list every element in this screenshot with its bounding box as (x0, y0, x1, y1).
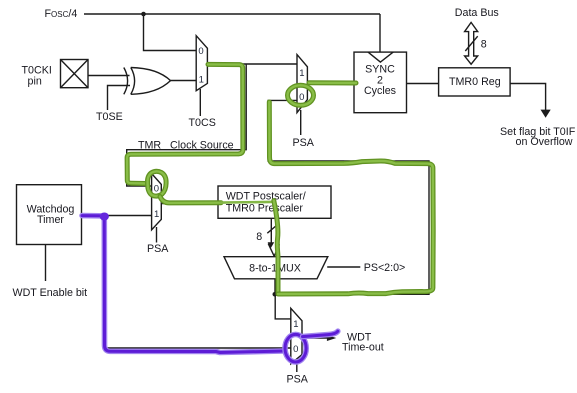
arrowhead WDT time-out (327, 335, 336, 341)
svg-text:1: 1 (199, 74, 204, 85)
box SYNC 2 Cycles (354, 52, 407, 113)
wire bottom PSA select (296, 362, 298, 372)
box TMR0 Reg (439, 68, 511, 96)
wire top PSA mux output to SYNC (307, 83, 354, 85)
highlight purple corner blob at watchdog junction (100, 213, 109, 221)
mux 8-to-1 (224, 257, 328, 279)
wire 8-to-1 mux output down (274, 279, 276, 295)
svg-text:T0SE: T0SE (96, 111, 123, 123)
arrowhead on wire (268, 242, 275, 248)
svg-text:1: 1 (154, 209, 159, 220)
highlight green clock source trace (127, 64, 243, 183)
svg-text:1: 1 (293, 319, 298, 330)
svg-text:FOSC/4: FOSC/4 (45, 8, 78, 20)
node prescaler output junction (273, 292, 278, 297)
wire TMR0 Reg overflow out (510, 84, 545, 111)
highlight purple WDT trace (82, 216, 284, 353)
mux PSA middle (152, 174, 162, 230)
arrowhead overflow (541, 110, 551, 118)
svg-text:PSA: PSA (287, 374, 309, 386)
svg-text:0: 0 (293, 344, 298, 355)
wire Watchdog branch down to WDT time-out mux input 0 (104, 216, 291, 349)
mux PSA bottom (291, 308, 302, 364)
box WDT Postscaler / TMR0 Prescaler (218, 186, 331, 218)
svg-text:PSA: PSA (147, 243, 169, 255)
wire PS select (327, 266, 360, 268)
wire Fosc/4 horizontal to SYNC clock (84, 13, 380, 15)
highlight purple time-out output (303, 331, 338, 336)
svg-text:on Overflow: on Overflow (516, 136, 573, 148)
xor gate (124, 68, 171, 95)
svg-text:0: 0 (299, 92, 304, 103)
svg-text:1: 1 (299, 68, 304, 79)
wire XOR output to T0CS mux input 1 (171, 80, 197, 82)
svg-text:TMR0 Prescaler: TMR0 Prescaler (226, 202, 304, 214)
highlight green top PSA output to SYNC (309, 80, 356, 85)
svg-text:Data Bus: Data Bus (455, 7, 499, 19)
wire WDT time-out output (302, 337, 328, 339)
svg-text:T0CS: T0CS (189, 117, 216, 129)
svg-text:WDT Enable bit: WDT Enable bit (13, 287, 88, 299)
wire SYNC to TMR0 Reg (407, 83, 439, 85)
svg-text:0: 0 (198, 46, 203, 57)
mux T0CS (196, 36, 207, 91)
highlight green bottom feedback trace (269, 102, 433, 294)
highlight purple loop bottom 0 (285, 334, 306, 362)
svg-text:Cycles: Cycles (364, 85, 396, 97)
wire T0CS mux output to PSA mux input 1 (207, 63, 297, 65)
wire T0SE to XOR input (108, 86, 131, 111)
wire Fosc/4 down into SYNC notch (379, 14, 381, 52)
mux PSA top (297, 55, 307, 113)
wire T0CKI pad to XOR input (88, 75, 130, 77)
wire junction down to T0CS mux input 0 (144, 14, 197, 51)
wire clock source branch down to prescaler mux (127, 64, 247, 186)
highlight green loop middle PSA 0 (148, 171, 167, 196)
svg-text:TMR Clock Source: TMR Clock Source (138, 140, 234, 152)
svg-text:8: 8 (481, 39, 487, 51)
wire prescaler to 8-to-1 mux (8-bit bus) (270, 218, 272, 243)
highlight green loop top PSA 0 (288, 85, 314, 105)
svg-text:Timer: Timer (37, 214, 64, 226)
highlight green prescaler down-trace (274, 201, 278, 293)
pin pad T0CKI (61, 60, 89, 88)
data bus double arrow (465, 22, 478, 64)
node junction on Fosc/4 line (141, 12, 146, 17)
svg-text:8-to-1MUX: 8-to-1MUX (249, 263, 301, 275)
wire WDT enable (45, 245, 47, 282)
wire T0CS select (199, 89, 201, 116)
svg-text:PS<2:0>: PS<2:0> (364, 262, 406, 274)
box Watchdog Timer (17, 185, 82, 245)
wire middle PSA select (156, 227, 158, 243)
wire top PSA select (300, 110, 302, 135)
wire prescaler output feedback loop to top PSA mux input 0 (268, 100, 429, 294)
wire Watchdog to PSA mux input 1 (82, 215, 152, 217)
svg-text:PSA: PSA (293, 137, 315, 149)
wire middle PSA mux output to prescaler box (161, 203, 218, 205)
svg-text:0: 0 (154, 183, 159, 194)
svg-text:Time-out: Time-out (342, 342, 384, 354)
bus slash (267, 226, 276, 234)
open V bus entry (268, 244, 279, 257)
svg-text:pin: pin (28, 76, 42, 88)
svg-text:8: 8 (256, 231, 262, 243)
svg-text:TMR0 Reg: TMR0 Reg (449, 76, 501, 88)
wire prescaler output to bottom mux input 1 (275, 294, 291, 319)
highlight green middle mux output (160, 197, 271, 203)
